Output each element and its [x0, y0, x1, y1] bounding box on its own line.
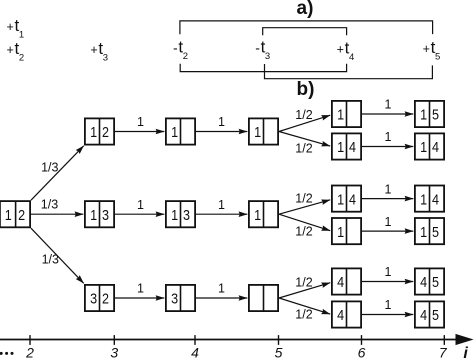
node r1uE box [1|5]: [415, 101, 444, 127]
svg-text:1: 1: [420, 138, 427, 155]
svg-text:1: 1: [385, 98, 392, 112]
svg-text:1: 1: [385, 130, 392, 144]
node r3C box [ | ]: [249, 285, 278, 311]
svg-text:a): a): [297, 0, 314, 19]
svg-text:1: 1: [218, 198, 225, 212]
svg-text:1: 1: [137, 198, 144, 212]
node r2dE box [1|5]: [415, 218, 444, 244]
svg-text:4: 4: [337, 273, 344, 290]
svg-text:1/2: 1/2: [295, 108, 312, 122]
svg-text:b): b): [297, 79, 315, 100]
svg-text:5: 5: [432, 306, 439, 323]
svg-text:1: 1: [90, 123, 97, 140]
svg-text:1: 1: [337, 190, 344, 207]
svg-text:5: 5: [432, 273, 439, 290]
svg-text:3: 3: [90, 290, 97, 307]
svg-text:4: 4: [349, 138, 356, 155]
svg-text:1/2: 1/2: [295, 141, 312, 155]
wire r2C->r2dD arrow p=1/2: [279, 214, 330, 238]
node r2dD box [1| ]: [332, 218, 361, 244]
axis tick 5: [275, 335, 283, 359]
svg-text:4: 4: [349, 190, 356, 207]
svg-text:4: 4: [432, 138, 439, 155]
svg-text:5: 5: [432, 223, 439, 240]
svg-text:1: 1: [90, 206, 97, 223]
wire r1uD->E arrow p=1: [362, 98, 413, 114]
svg-text:3: 3: [110, 344, 118, 359]
svg-text:4: 4: [191, 344, 199, 359]
wire r1C->r1uD arrow p=1/2: [279, 108, 330, 132]
axis tick 3: [110, 335, 118, 359]
svg-text:1: 1: [385, 182, 392, 196]
wire root->r2A arrow p=1/3: [31, 198, 83, 215]
node r1dE box [1|4]: [415, 133, 444, 159]
node r2uE box [1|4]: [415, 186, 444, 212]
svg-text:1: 1: [254, 123, 261, 140]
svg-text:2: 2: [18, 206, 25, 223]
node r2uD box [1|4]: [332, 186, 361, 212]
svg-text:1: 1: [254, 206, 261, 223]
svg-text:1/2: 1/2: [295, 191, 312, 205]
node r1C box [1| ]: [249, 118, 278, 144]
wire r1A->B arrow p=1: [115, 115, 164, 131]
svg-text:5: 5: [432, 106, 439, 123]
bracket inner (t3..t4): [263, 28, 347, 36]
axis continuation dots: [0, 352, 14, 355]
wire root->r1A arrow p=1/3: [31, 146, 84, 200]
wire r2uD->E arrow p=1: [362, 182, 413, 198]
wire r2dD->E arrow p=1: [362, 215, 413, 231]
svg-text:2: 2: [102, 123, 109, 140]
wire r2B->C arrow p=1: [196, 198, 247, 214]
svg-text:1: 1: [171, 123, 178, 140]
node r2C box [1| ]: [249, 201, 278, 227]
svg-text:1: 1: [385, 215, 392, 229]
node r3uE box [4|5]: [415, 268, 444, 294]
svg-text:2: 2: [25, 344, 34, 359]
wire root->r3A arrow p=1/3: [31, 228, 84, 283]
svg-text:1: 1: [420, 190, 427, 207]
svg-text:i: i: [463, 345, 468, 359]
wire r3B->C arrow p=1: [196, 282, 247, 298]
svg-text:4: 4: [420, 273, 427, 290]
svg-text:1: 1: [420, 106, 427, 123]
axis tick 7: [439, 335, 448, 359]
node r1dD box [1|4]: [332, 133, 361, 159]
svg-text:1/3: 1/3: [41, 198, 58, 212]
svg-text:1: 1: [137, 115, 144, 129]
svg-text:3: 3: [183, 206, 190, 223]
svg-text:3: 3: [171, 290, 178, 307]
node r1B box [1| ]: [166, 118, 195, 144]
svg-text:1/3: 1/3: [42, 253, 59, 267]
svg-text:1/2: 1/2: [295, 276, 312, 290]
node r3dE box [4|5]: [415, 301, 444, 327]
svg-text:1/3: 1/3: [41, 161, 58, 175]
node r1uD box [1| ]: [332, 101, 361, 127]
wire r3dD->E arrow p=1: [362, 298, 413, 314]
node r2B box [1|3]: [166, 201, 195, 227]
svg-text:1: 1: [337, 106, 344, 123]
node r3uD box [4| ]: [332, 268, 361, 294]
svg-text:5: 5: [275, 344, 283, 359]
node r2A box [1|3]: [85, 201, 114, 227]
svg-text:7: 7: [439, 344, 448, 359]
bracket a (t2..t5): [180, 21, 433, 34]
wire r1dD->E arrow p=1: [362, 130, 413, 146]
svg-text:1: 1: [137, 282, 144, 296]
axis tick 2: [25, 335, 34, 359]
wire r1B->C arrow p=1: [196, 115, 247, 131]
svg-text:1: 1: [171, 206, 178, 223]
wire r3uD->E arrow p=1: [362, 265, 413, 281]
axis tick 6: [358, 335, 366, 359]
svg-text:1/2: 1/2: [295, 225, 312, 239]
svg-text:1/2: 1/2: [295, 308, 312, 322]
svg-text:2: 2: [102, 290, 109, 307]
svg-text:1: 1: [420, 223, 427, 240]
node r3dD box [4| ]: [332, 301, 361, 327]
wire r1C->r1dD arrow p=1/2: [279, 132, 330, 156]
svg-text:4: 4: [432, 190, 439, 207]
svg-text:1: 1: [385, 265, 392, 279]
wire r3A->B arrow p=1: [115, 282, 164, 298]
wire r3C->r3uD arrow p=1/2: [279, 276, 330, 299]
node r1A box [1|2]: [85, 118, 114, 144]
wire r3C->r3dD arrow p=1/2: [279, 298, 330, 322]
bracket lower (t2..t4): [180, 64, 346, 72]
svg-text:1: 1: [337, 223, 344, 240]
svg-text:1: 1: [385, 298, 392, 312]
wire r2A->B arrow p=1: [115, 198, 164, 214]
node r3A box [3|2]: [85, 285, 114, 311]
svg-text:1: 1: [218, 282, 225, 296]
svg-text:4: 4: [420, 306, 427, 323]
svg-text:1: 1: [5, 206, 12, 223]
axis i (time): [0, 334, 474, 359]
svg-text:3: 3: [102, 206, 109, 223]
axis tick 4: [191, 335, 199, 359]
svg-text:1: 1: [337, 138, 344, 155]
svg-text:4: 4: [337, 306, 344, 323]
svg-text:1: 1: [218, 115, 225, 129]
node root box [1|2]: [0, 201, 30, 227]
svg-text:6: 6: [358, 344, 366, 359]
wire r2C->r2uD arrow p=1/2: [279, 191, 330, 214]
bracket b (t3..t5): [265, 64, 433, 79]
node r3B box [3| ]: [166, 285, 195, 311]
